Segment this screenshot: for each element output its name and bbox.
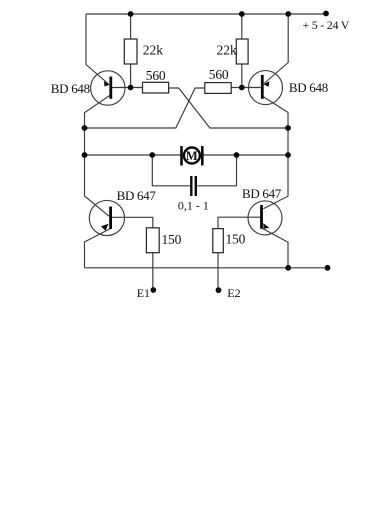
svg-text:0,1 - 1: 0,1 - 1 (178, 199, 209, 213)
svg-text:BD 648: BD 648 (51, 81, 90, 96)
svg-text:150: 150 (162, 232, 182, 247)
svg-text:E2: E2 (227, 286, 240, 300)
svg-text:BD 648: BD 648 (289, 80, 328, 95)
svg-text:150: 150 (226, 232, 246, 247)
svg-text:BD 647: BD 647 (242, 186, 282, 201)
svg-text:560: 560 (209, 67, 229, 82)
svg-text:M: M (186, 149, 198, 163)
svg-text:22k: 22k (217, 42, 238, 57)
svg-text:E1: E1 (137, 286, 150, 300)
svg-text:BD 647: BD 647 (117, 188, 157, 203)
svg-text:+ 5 - 24 V: + 5 - 24 V (303, 18, 350, 32)
svg-text:22k: 22k (143, 42, 164, 57)
svg-text:560: 560 (146, 68, 166, 83)
